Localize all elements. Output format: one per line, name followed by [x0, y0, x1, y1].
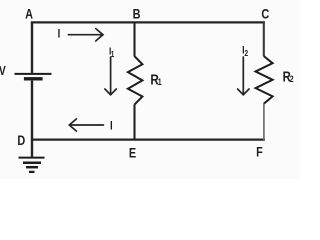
wire left branch lower (battery to D and ground stub)	[31, 81, 33, 157]
svg-text:2: 2	[290, 74, 294, 84]
wire right branch upper (C to R2)	[263, 22, 265, 57]
ground bar 1	[19, 157, 45, 159]
resistor R1 zigzag	[128, 56, 142, 104]
svg-text:V: V	[0, 64, 6, 78]
svg-text:A: A	[25, 6, 33, 22]
current arrow I top (rightward)	[68, 29, 103, 41]
ground bar 4	[29, 171, 35, 173]
svg-text:D: D	[17, 133, 25, 149]
wire right branch lower (R2 to F)	[263, 104, 265, 141]
current arrow I1 (downward)	[105, 57, 116, 95]
current arrow I2 (downward)	[238, 57, 249, 95]
svg-text:E: E	[129, 145, 136, 161]
battery V plate long	[15, 73, 52, 75]
wire B branch lower (R1 to E)	[133, 104, 135, 140]
wire top rail A-B-C	[31, 21, 265, 23]
svg-text:B: B	[133, 6, 141, 22]
svg-text:C: C	[261, 6, 269, 22]
svg-text:1: 1	[111, 49, 115, 59]
ground bar 2	[23, 162, 41, 165]
svg-text:I: I	[110, 120, 113, 133]
svg-text:1: 1	[158, 77, 162, 87]
svg-text:2: 2	[244, 48, 248, 58]
svg-text:I: I	[58, 28, 61, 41]
ground bar 3	[26, 166, 38, 169]
wire left branch upper (A to battery)	[31, 22, 33, 73]
current arrow I bottom (leftward)	[69, 119, 103, 131]
wire bottom rail D-E-F	[31, 139, 265, 141]
resistor R2 zigzag	[256, 56, 273, 104]
battery V plate short thick	[24, 77, 43, 80]
wire B branch upper (B to R1)	[133, 22, 135, 57]
svg-text:F: F	[256, 144, 263, 160]
